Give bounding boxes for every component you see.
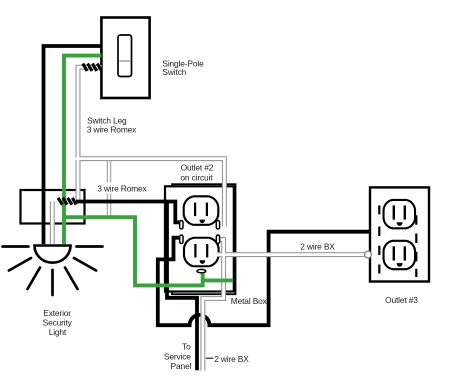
svg-text:Outlet #2: Outlet #2: [181, 163, 214, 173]
svg-text:Light: Light: [49, 327, 67, 337]
svg-text:Switch: Switch: [162, 67, 186, 77]
svg-text:2 wire BX: 2 wire BX: [300, 241, 335, 251]
svg-text:Metal Box: Metal Box: [231, 296, 268, 306]
svg-text:on circuit: on circuit: [180, 173, 213, 183]
svg-text:3 wire Romex: 3 wire Romex: [87, 125, 137, 135]
svg-text:3 wire Romex: 3 wire Romex: [97, 183, 147, 193]
svg-text:To: To: [182, 342, 191, 352]
svg-text:Service: Service: [164, 351, 191, 361]
svg-text:Panel: Panel: [171, 361, 192, 371]
svg-text:2 wire BX: 2 wire BX: [214, 354, 249, 364]
svg-text:Exterior: Exterior: [43, 308, 71, 318]
svg-text:Outlet #3: Outlet #3: [385, 295, 418, 305]
